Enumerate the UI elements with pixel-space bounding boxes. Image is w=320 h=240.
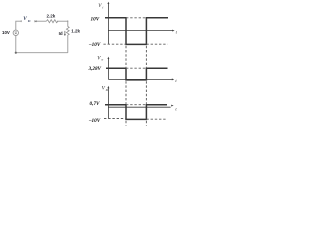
- svg-text:o: o: [102, 58, 104, 62]
- plot1 y-axis: [107, 3, 109, 44]
- time guide dashes t1 below plot3: [125, 121, 127, 126]
- svg-text:t: t: [175, 78, 177, 83]
- node top-right: [67, 20, 69, 22]
- svg-text:D: D: [27, 19, 31, 23]
- source polarity marks: [15, 32, 17, 34]
- plot1 dashed low level right: [146, 43, 167, 45]
- time guide dashes t1 plot2-plot3: [125, 81, 127, 104]
- resistor R2 1.2k vertical zigzag: [66, 26, 69, 35]
- svg-text:V: V: [23, 16, 27, 22]
- plot3 t-axis: [108, 106, 170, 108]
- ground node dot: [15, 52, 17, 54]
- svg-text:D: D: [105, 88, 109, 92]
- bottom rail wire: [16, 52, 68, 54]
- plot2 y-axis: [107, 58, 109, 79]
- wire R2 bottom: [67, 35, 69, 53]
- svg-text:–10V: –10V: [88, 42, 101, 48]
- diode D1 (tiny): [35, 20, 37, 22]
- svg-text:3,28V: 3,28V: [87, 66, 101, 72]
- svg-text:–10V: –10V: [88, 118, 101, 124]
- plot2 waveform: [106, 68, 168, 80]
- plot2 dashed high level: [126, 67, 146, 69]
- time guide dashes t1 plot1-plot2: [125, 46, 127, 68]
- plot3 y-axis: [107, 87, 109, 118]
- svg-text:0,7V: 0,7V: [90, 101, 100, 107]
- wire diode to R1: [37, 20, 47, 22]
- plot1 dashed high level: [126, 17, 146, 19]
- plot3 dashed high level: [126, 104, 146, 106]
- svg-text:Id: Id: [59, 31, 63, 36]
- svg-text:1.2k: 1.2k: [71, 28, 80, 33]
- svg-text:10V: 10V: [2, 30, 10, 35]
- svg-text:10V: 10V: [91, 16, 100, 22]
- resistor R1 2.2k (zigzag): [46, 20, 58, 23]
- node tick left of VD: [20, 20, 22, 22]
- wire node down: [67, 21, 69, 26]
- plot3 dashed low level left: [104, 118, 126, 120]
- time guide dashes t2 plot2-plot3: [145, 81, 147, 104]
- svg-text:t: t: [176, 29, 178, 34]
- time guide dashes t2 below plot3: [145, 121, 147, 126]
- plot1 dashed low level left: [103, 43, 126, 45]
- wire source top to rail: [16, 21, 22, 30]
- svg-text:2.2k: 2.2k: [47, 13, 56, 18]
- plot1 t-axis: [108, 30, 172, 32]
- plot3 waveform: [105, 105, 167, 120]
- voltage source V1 10V: [13, 30, 18, 35]
- time guide dashes t2 plot1-plot2: [145, 46, 147, 68]
- svg-text:t: t: [175, 107, 177, 112]
- current arrow Id: [64, 31, 66, 35]
- wire source bottom: [15, 35, 17, 52]
- plot1 waveform square wave: [105, 18, 168, 45]
- svg-text:i: i: [102, 5, 103, 9]
- plot2 t-axis: [108, 78, 172, 80]
- wire R1 to node: [57, 20, 68, 22]
- plot3 dashed low level right: [146, 118, 165, 120]
